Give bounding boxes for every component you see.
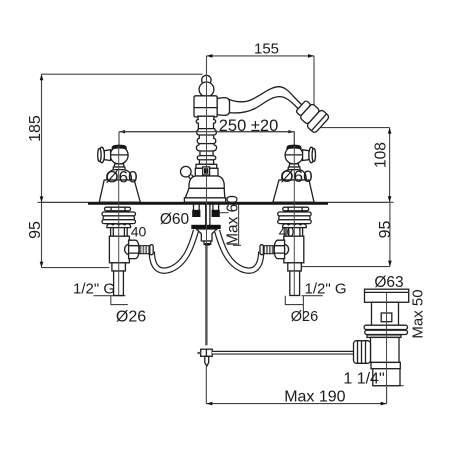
svg-text:185: 185 [27,115,44,142]
svg-text:1/2" G: 1/2" G [73,280,115,297]
svg-text:Max 190: Max 190 [284,388,345,405]
svg-text:40: 40 [279,224,295,240]
svg-text:95: 95 [27,221,44,239]
svg-text:40: 40 [131,224,147,240]
svg-text:108: 108 [373,142,390,168]
svg-text:250 ±20: 250 ±20 [219,117,279,135]
svg-text:Ø26: Ø26 [291,309,318,325]
svg-text:Ø60: Ø60 [160,211,190,228]
svg-text:Ø60: Ø60 [280,167,312,186]
svg-text:Ø60: Ø60 [105,168,137,187]
svg-text:1 1/4": 1 1/4" [343,371,384,388]
svg-text:95: 95 [377,221,394,239]
svg-text:Max 50: Max 50 [410,289,427,338]
svg-text:Ø63: Ø63 [374,274,403,291]
svg-text:1/2" G: 1/2" G [304,280,346,297]
svg-text:Max 60: Max 60 [225,195,242,246]
svg-text:Ø26: Ø26 [116,309,146,326]
svg-text:155: 155 [254,41,279,58]
